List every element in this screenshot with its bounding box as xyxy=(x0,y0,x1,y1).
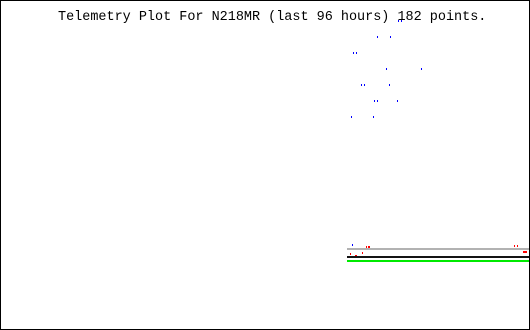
blue data point xyxy=(377,36,378,38)
red data point pair right above gray line xyxy=(514,245,516,247)
blue data point xyxy=(386,68,387,70)
blue data point pair under '182' xyxy=(398,20,399,22)
blue data point pair xyxy=(361,84,362,86)
blue data point xyxy=(421,68,422,70)
title text xyxy=(58,10,486,25)
gray horizontal line xyxy=(347,248,529,250)
blue data point xyxy=(389,84,390,86)
blue data point xyxy=(373,116,374,118)
red data point pair above gray line xyxy=(366,246,368,248)
red data point below gray line xyxy=(362,252,364,254)
red bar mark bottom right xyxy=(523,251,527,253)
blue data point pair xyxy=(374,100,375,102)
black horizontal line xyxy=(347,256,529,258)
blue data point xyxy=(397,100,398,102)
blue data point xyxy=(351,116,352,118)
red data point below gray line xyxy=(350,253,352,255)
blue data point xyxy=(390,36,391,38)
blue data point near gray line xyxy=(352,244,353,246)
blue data point pair xyxy=(353,52,354,54)
green horizontal line xyxy=(347,260,529,262)
red data point below gray line xyxy=(355,255,357,257)
